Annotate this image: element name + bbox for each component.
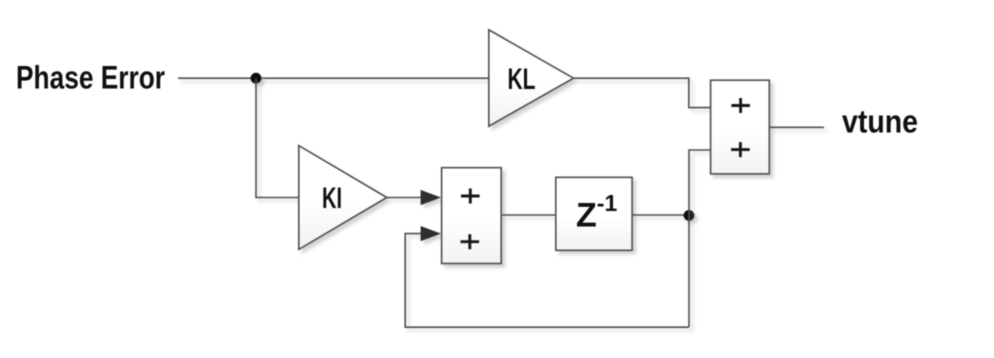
gain block KI (triangle): [299, 146, 387, 250]
wire: junction down to feedback bottom run: [688, 215, 690, 327]
wire: Phase Error to KL gain input: [178, 77, 489, 79]
wire: summer S1 output to vtune: [769, 126, 824, 128]
svg-text:KL: KL: [508, 63, 536, 96]
node: branch junction dot on Phase Error line: [251, 73, 262, 84]
plus sign S2 lower: [461, 234, 480, 249]
wire: KI output into summer S2 top input (with arrowhead): [387, 190, 441, 205]
svg-text:vtune: vtune: [842, 103, 918, 139]
wire: junction up to summer S1 bottom input: [689, 150, 711, 215]
delay block Z^-1: [556, 177, 632, 250]
summer S1 (box with + +): [711, 80, 770, 174]
wire: branch down from junction to KI gain input: [256, 78, 299, 197]
node: feedback junction dot at Z-1 output: [684, 210, 695, 221]
plus sign S1 lower: [731, 142, 750, 157]
summer S2 (box with + +): [442, 168, 502, 264]
wire: KL output to top input of summer S1: [574, 78, 711, 107]
gain block KL (triangle): [489, 30, 574, 126]
svg-text:Phase Error: Phase Error: [16, 60, 165, 96]
plus sign S1 upper: [731, 98, 750, 113]
wire: feedback into summer S2 bottom input (with arrowhead): [405, 226, 689, 327]
wire: Z-1 output to feedback junction: [632, 214, 689, 216]
svg-text:KI: KI: [322, 182, 342, 215]
wire: summer S2 output to Z-1 block: [501, 214, 556, 216]
plus sign S2 upper: [461, 189, 480, 204]
